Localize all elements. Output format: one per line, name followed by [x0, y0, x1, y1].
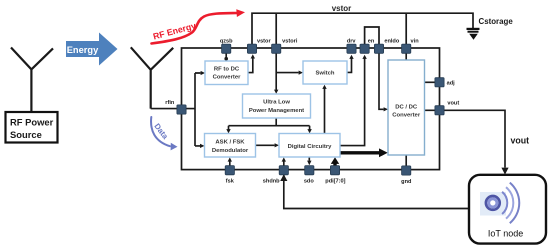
bus: pdi[7:0] pin up into Digital Circuitry (thick arrow)	[333, 164, 336, 171]
svg-text:Power Management: Power Management	[249, 108, 304, 114]
pin vin	[402, 38, 420, 53]
svg-text:DC / DC: DC / DC	[395, 105, 418, 111]
RF Power Source box	[6, 112, 58, 143]
svg-text:sdo: sdo	[304, 179, 315, 185]
svg-text:RF Power: RF Power	[10, 117, 54, 128]
wire: vstori down to Ultra Low Power Management	[275, 53, 277, 90]
svg-text:vin: vin	[411, 38, 420, 44]
pin en	[360, 38, 375, 53]
wire: vstori junction to Switch input	[276, 72, 298, 74]
RF Energy annotation (red curved arrow)	[152, 9, 246, 43]
svg-text:pdi[7:0]: pdi[7:0]	[325, 179, 345, 185]
pin qzsb	[220, 38, 233, 53]
wire: vin pin into DC/DC converter top	[405, 53, 407, 60]
wire: enldo pin down to DC/DC converter	[379, 53, 384, 109]
pin gnd	[401, 166, 412, 185]
svg-text:Ultra Low: Ultra Low	[263, 100, 290, 106]
svg-text:adj: adj	[447, 80, 456, 86]
svg-text:ASK / FSK: ASK / FSK	[215, 140, 245, 146]
svg-text:Converter: Converter	[213, 74, 242, 80]
capacitor Cstorage	[467, 17, 514, 40]
wire: ULPM output split to demodulator and digital circuitry	[229, 118, 310, 130]
svg-text:vout: vout	[447, 100, 459, 106]
pin enldo	[374, 38, 399, 53]
IoT node speaker icon	[480, 192, 506, 216]
svg-text:rfin: rfin	[165, 100, 175, 106]
svg-text:shdnb: shdnb	[263, 179, 280, 185]
svg-text:fsk: fsk	[226, 179, 235, 185]
wire: Digital Circuitry down to sdo pin	[308, 157, 310, 161]
block: Switch	[303, 61, 347, 84]
Energy arrow	[66, 33, 118, 66]
svg-text:IoT node: IoT node	[488, 228, 523, 238]
svg-text:qzsb: qzsb	[220, 38, 233, 44]
svg-text:Demodulator: Demodulator	[212, 148, 249, 154]
pin drv	[347, 38, 357, 53]
block: Digital Circuitry	[279, 134, 340, 158]
svg-text:vstor: vstor	[332, 4, 352, 13]
wire: DC/DC converter down to gnd pin	[405, 155, 407, 166]
jumper: en to enldo bridge	[365, 27, 379, 45]
pin adj	[435, 78, 455, 87]
pin fsk	[225, 166, 235, 185]
svg-text:drv: drv	[347, 38, 357, 44]
svg-text:Switch: Switch	[316, 71, 335, 77]
block: ASK / FSK Demodulator	[205, 134, 256, 158]
bus: Digital Circuitry to DC/DC converter (thick arrow)	[340, 151, 380, 154]
pin vout	[435, 100, 459, 114]
wire: vout pin to IoT node	[425, 110, 506, 167]
pin vstori	[272, 38, 298, 53]
wire: Switch output up to drv pin	[347, 59, 352, 73]
svg-text:RF to DC: RF to DC	[214, 66, 240, 72]
wire: ASK/FSK demodulator to Digital Circuitry	[256, 144, 275, 146]
pin vstor	[247, 38, 271, 53]
block: Ultra Low Power Management	[243, 94, 311, 118]
wire: fsk pin up into demodulator	[229, 162, 231, 171]
wire: shdnb from IoT node up into Digital Circuitry	[284, 162, 469, 209]
antenna ANT1 (RF power source antenna)	[11, 48, 53, 113]
block: RF to DC Converter	[205, 61, 248, 85]
svg-text:Converter: Converter	[392, 112, 421, 118]
pin sdo	[304, 166, 315, 185]
wire: Digital Circuitry to en pin	[340, 59, 365, 146]
svg-text:gnd: gnd	[401, 179, 412, 185]
pin shdnb	[263, 166, 289, 185]
wire: rfin feed from antenna to demodulator/rectifier riser	[151, 73, 201, 146]
block: DC / DC Converter	[388, 60, 425, 155]
IoT node box	[469, 175, 546, 244]
svg-text:vstori: vstori	[282, 38, 298, 44]
svg-text:vstor: vstor	[257, 38, 272, 44]
antenna ANT2 (harvester antenna)	[131, 47, 173, 108]
svg-text:Source: Source	[10, 129, 42, 140]
svg-text:vout: vout	[511, 135, 530, 145]
svg-text:Digital Circuitry: Digital Circuitry	[288, 144, 333, 150]
chip U1 outline	[182, 48, 440, 170]
wire: DC/DC converter to adj pin	[425, 81, 436, 83]
svg-text:Energy: Energy	[67, 45, 99, 55]
svg-text:enldo: enldo	[384, 38, 399, 44]
pin pdi[7:0]	[325, 166, 345, 185]
pin rfin	[165, 100, 186, 114]
wire: qzsb to RF-DC converter	[225, 53, 227, 57]
wire: Digital Circuitry up to Switch control	[324, 89, 326, 134]
vstor rail (top)	[252, 13, 473, 48]
wire: RF-DC converter output up to vstor pin	[248, 58, 253, 73]
Data annotation (blue curved arrow)	[151, 117, 177, 150]
svg-text:en: en	[368, 38, 375, 44]
svg-text:Cstorage: Cstorage	[479, 17, 514, 26]
